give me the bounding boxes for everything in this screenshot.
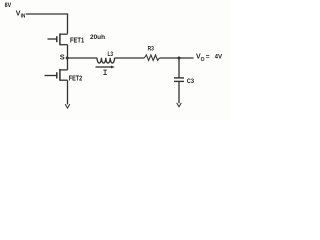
svg-text:20uh: 20uh xyxy=(90,34,105,41)
svg-text:R3: R3 xyxy=(148,45,155,52)
svg-text:S: S xyxy=(60,52,65,61)
svg-text:O: O xyxy=(201,57,205,63)
svg-text:C3: C3 xyxy=(187,78,194,85)
svg-text:8V: 8V xyxy=(5,2,12,9)
svg-text:IN: IN xyxy=(21,14,26,20)
svg-text:=: = xyxy=(206,53,210,60)
svg-text:4V: 4V xyxy=(215,54,223,61)
svg-text:FET1: FET1 xyxy=(70,38,84,45)
svg-text:L3: L3 xyxy=(108,51,114,58)
svg-text:FET2: FET2 xyxy=(69,75,82,82)
